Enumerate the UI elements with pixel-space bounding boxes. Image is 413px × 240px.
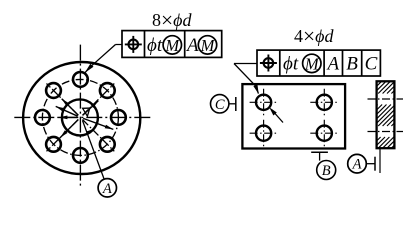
section hole axis 2 bbox=[368, 131, 404, 133]
datum A circle bbox=[98, 179, 116, 197]
M circle (right FCF) bbox=[303, 54, 321, 72]
bolt hole 4 (135 deg) bbox=[46, 83, 61, 98]
bolt hole 1 (0 deg) bbox=[111, 110, 126, 125]
datum C tick bbox=[235, 97, 237, 111]
section bar hatching bbox=[376, 80, 379, 83]
svg-text:A: A bbox=[325, 54, 339, 75]
M circle 1 (left FCF) bbox=[163, 36, 181, 54]
svg-text:A: A bbox=[185, 35, 199, 56]
plate hole 3 bbox=[256, 126, 271, 141]
plate hole 1 bbox=[256, 95, 271, 110]
plate hole 4 bbox=[317, 126, 332, 141]
datum A circle (right) bbox=[348, 154, 367, 173]
radial arrow 135 deg bbox=[62, 99, 79, 116]
open triangle near center bbox=[83, 108, 90, 116]
45-degree centerline NW bbox=[47, 84, 79, 116]
section hole axis 1 bbox=[368, 98, 404, 100]
FCF leader (left) bbox=[116, 44, 123, 46]
datum A link bbox=[366, 163, 375, 165]
datum A leader line bbox=[83, 121, 104, 179]
45-degree centerline NE bbox=[83, 84, 115, 116]
datum B link bbox=[319, 152, 321, 160]
bolt hole 8 (315 deg) bbox=[100, 137, 115, 152]
radial arrow -20 deg bbox=[83, 118, 113, 129]
datum A tick bbox=[374, 157, 376, 171]
svg-text:B: B bbox=[322, 163, 331, 179]
datum A tick bbox=[86, 130, 92, 132]
svg-text:8×ϕd: 8×ϕd bbox=[152, 8, 192, 32]
45-degree centerline SW bbox=[47, 120, 79, 152]
radial arrow 180 deg bbox=[59, 116, 78, 118]
vertical centerline bbox=[79, 45, 81, 187]
bolt hole 2 (45 deg) bbox=[100, 83, 115, 98]
svg-text:M: M bbox=[200, 36, 216, 55]
radial arrow 225 deg bbox=[60, 120, 78, 138]
svg-text:M: M bbox=[164, 36, 180, 55]
datum C circle bbox=[211, 95, 229, 113]
bolt hole 5 (180 deg) bbox=[35, 110, 50, 125]
svg-text:ϕt: ϕt bbox=[283, 54, 299, 75]
central hole circle bbox=[62, 99, 98, 135]
svg-text:C: C bbox=[215, 97, 225, 113]
position symbol (right FCF) bbox=[264, 58, 274, 68]
45-degree centerline SE bbox=[83, 120, 115, 152]
bolt hole 6 (225 deg) bbox=[46, 137, 61, 152]
M circle 2 (left FCF) bbox=[198, 36, 216, 54]
svg-text:A: A bbox=[352, 157, 362, 173]
svg-text:M: M bbox=[304, 54, 320, 73]
bolt hole 7 (270 deg) bbox=[73, 148, 88, 163]
second arrow to hole bbox=[272, 110, 284, 123]
svg-text:4×ϕd: 4×ϕd bbox=[294, 24, 334, 48]
flange outer circle bbox=[23, 62, 140, 174]
svg-text:ϕt: ϕt bbox=[147, 35, 163, 56]
bolt hole 3 (90 deg) bbox=[73, 72, 88, 87]
position symbol (left FCF) bbox=[129, 40, 139, 50]
svg-text:C: C bbox=[365, 54, 378, 75]
FCF leader (right) bbox=[234, 63, 257, 65]
FCF frame (right) bbox=[257, 50, 380, 76]
radial arrow 156 deg bbox=[56, 106, 78, 116]
radial arrow 43 deg bbox=[83, 101, 99, 116]
svg-text:A: A bbox=[102, 181, 112, 197]
section bar outline bbox=[377, 81, 395, 148]
plate rectangle bbox=[242, 84, 345, 148]
datum B tick bbox=[311, 151, 328, 153]
datum B circle bbox=[317, 161, 336, 180]
bolt circle (dash-dot) bbox=[42, 79, 118, 155]
svg-text:B: B bbox=[346, 54, 358, 75]
FCF frame (left) bbox=[122, 31, 222, 58]
datum C link bbox=[229, 103, 236, 105]
horizontal centerline bbox=[14, 116, 152, 118]
plate hole 2 bbox=[317, 95, 332, 110]
extension line below bar bbox=[379, 148, 381, 173]
